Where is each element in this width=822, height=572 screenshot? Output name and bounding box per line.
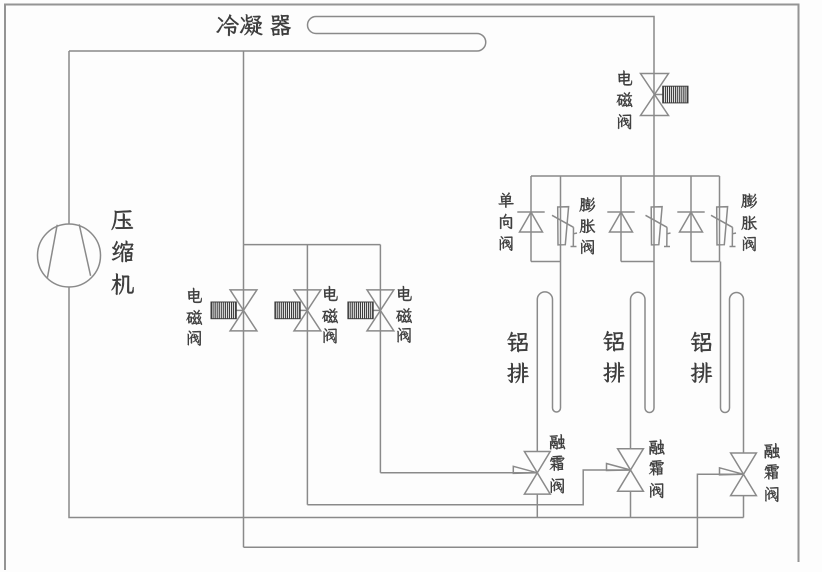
suction header: [69, 287, 744, 518]
branch3 expansion pipe: [719, 176, 721, 262]
defrost valve DV3: [720, 453, 757, 496]
label label 电磁阀 SV3: [396, 286, 412, 343]
expansion valve TXV1: [552, 207, 577, 247]
check valve CV1: [517, 212, 544, 232]
label label 融霜阀 1: [550, 434, 565, 493]
label label 铝排 2: [603, 331, 624, 382]
evaporator coil coil3: [721, 262, 744, 454]
branch1 bottom join: [531, 261, 561, 263]
branch2 bottom join: [621, 261, 654, 263]
compressor discharge riser: [68, 51, 70, 224]
hot gas feed to DV2: [307, 470, 630, 505]
liquid line drop at x243: [243, 51, 245, 245]
branch2 expansion pipe: [653, 176, 655, 262]
compressor symbol: [38, 224, 101, 287]
label condenser 冷凝器: [216, 14, 290, 36]
solenoid valve SV3: [348, 290, 394, 331]
label label 单向阀: [499, 192, 514, 250]
solenoid valve SV1: [211, 290, 257, 331]
evaporator coil coil2: [631, 262, 655, 449]
check valve CV3: [677, 212, 704, 232]
label label 铝排 3: [691, 332, 712, 383]
defrost valve DV2: [607, 449, 644, 492]
label label 融霜阀 2: [649, 440, 664, 499]
expansion valve TXV3: [711, 207, 736, 247]
solenoid valve SV4: [641, 74, 689, 116]
solenoid valve SV2: [275, 290, 321, 331]
label label 铝排 1: [507, 332, 528, 383]
defrost valve 2 tail: [630, 491, 632, 517]
defrost valve 1 tail: [536, 494, 538, 517]
check valve CV2: [607, 212, 634, 232]
expansion top rail: [531, 175, 720, 177]
branch1 expansion pipe: [560, 176, 562, 262]
label compressor 压缩机: [111, 210, 133, 295]
label label 电磁阀 SV2: [322, 286, 338, 343]
label label 电磁阀 SV1: [186, 288, 202, 346]
solenoid branch pipe 3: [379, 245, 381, 473]
solenoid branch pipe 1: [243, 245, 245, 548]
branch3 check pipe: [690, 176, 692, 262]
hot gas feed to DV1: [380, 472, 537, 474]
branch3 bottom join: [691, 261, 720, 263]
label label 膨胀阀 1: [580, 197, 596, 254]
condenser outlet pipe: [653, 74, 655, 177]
hot gas feed to DV3: [244, 474, 744, 547]
solenoid supply rail: [244, 244, 381, 246]
defrost valve 3 tail: [743, 496, 745, 518]
defrost valve DV1: [513, 452, 550, 495]
condenser serpentine: [69, 17, 654, 74]
label label 膨胀阀 2: [741, 194, 757, 252]
solenoid branch pipe 2: [306, 245, 308, 505]
label label 电磁阀 SV4: [617, 71, 633, 130]
branch2 check pipe: [620, 176, 622, 262]
branch1 check pipe: [530, 176, 532, 262]
label label 融霜阀 3: [764, 443, 779, 502]
evaporator coil coil1: [537, 262, 560, 452]
expansion valve TXV2: [646, 207, 671, 247]
